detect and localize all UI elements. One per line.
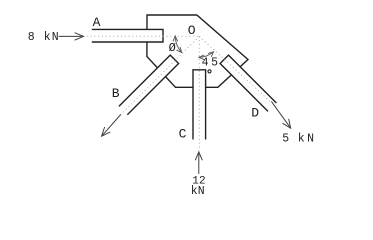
8 kN force arrow [59, 35, 83, 37]
svg-text:45: 45 [202, 56, 221, 69]
svg-text:D: D [251, 105, 259, 120]
svg-text:A: A [93, 15, 101, 30]
gusset plate outline [147, 15, 248, 87]
svg-text:8: 8 [28, 31, 35, 44]
svg-text:5: 5 [282, 133, 289, 146]
member A bar [92, 29, 163, 42]
dotted axis line along member D [199, 36, 271, 103]
member B axis force arrow [102, 115, 120, 136]
svg-text:Ø: Ø [169, 41, 176, 55]
angle phi arc [175, 37, 181, 52]
dotted axis line along member C [198, 36, 200, 151]
dotted axis line along member B [121, 36, 200, 115]
dotted axis line along member A [60, 35, 199, 37]
degree symbol of 45 [208, 70, 211, 73]
member C bar [193, 70, 206, 140]
svg-text:kN: kN [298, 133, 317, 146]
svg-text:C: C [179, 127, 187, 142]
5 kN force arrow [271, 101, 290, 127]
svg-text:O: O [188, 23, 196, 38]
angle 45 arc [200, 52, 213, 57]
member B bar [119, 55, 179, 115]
svg-text:B: B [112, 86, 120, 101]
member D bar [220, 55, 276, 111]
svg-text:kN: kN [44, 31, 60, 44]
12 kN force arrow [198, 153, 200, 174]
svg-text:kN: kN [191, 185, 205, 198]
